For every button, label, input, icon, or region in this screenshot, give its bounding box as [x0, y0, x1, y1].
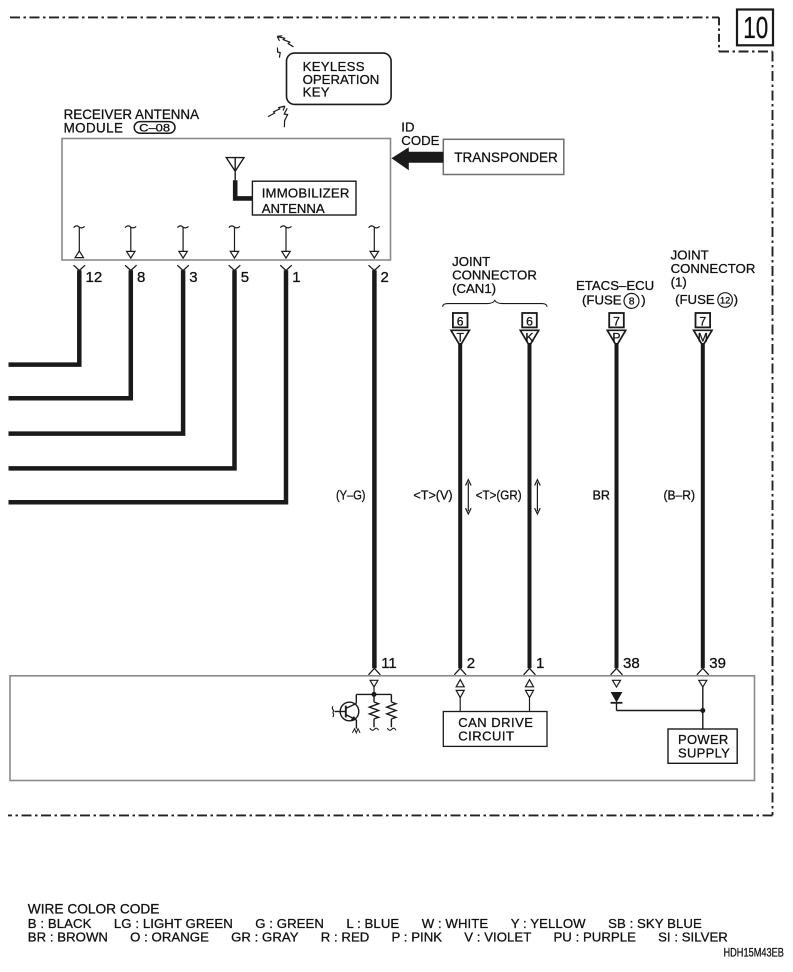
- joint connector 1 label: [671, 247, 756, 307]
- junction node diode/power: [700, 708, 705, 713]
- radio wave bolt top: [277, 36, 293, 47]
- emitter ground: [352, 729, 360, 733]
- pin 38 fork and number: [611, 655, 640, 675]
- svg-text:MODULE: MODULE: [64, 121, 124, 136]
- ECU box: [10, 676, 755, 781]
- svg-text:6: 6: [457, 315, 464, 329]
- ETACS wire: [615, 343, 619, 668]
- svg-text:K: K: [525, 331, 533, 345]
- pin 1 fork and number: [280, 265, 300, 286]
- page border dash-dot bottom: [8, 814, 773, 816]
- transistor Q1: [335, 694, 359, 728]
- svg-text:2: 2: [467, 655, 475, 672]
- wire from pin 2 to pin 11: [372, 270, 377, 668]
- ECU internal supply rail: [356, 693, 391, 695]
- ECU pin 1 terminal: [526, 680, 534, 712]
- wire pin39 to power supply: [702, 687, 704, 729]
- CAN-H wire: [528, 343, 532, 668]
- pin 2 fork and number: [369, 265, 389, 286]
- module pin 8 internal arrow: [125, 226, 136, 258]
- svg-text:<T>(V): <T>(V): [413, 488, 452, 502]
- wire from pin 5: [9, 270, 235, 468]
- diode D1: [611, 692, 623, 711]
- connector code C-08: [134, 122, 175, 135]
- svg-text:10: 10: [743, 10, 768, 45]
- svg-text:T: T: [456, 331, 464, 345]
- CAN drive circuit box: [443, 712, 547, 747]
- receiver antenna module label: [64, 107, 199, 136]
- keyless operation key box: [287, 53, 392, 104]
- svg-text:KEY: KEY: [303, 85, 330, 100]
- svg-text:): ): [734, 292, 738, 307]
- module pin 2 internal arrow: [369, 226, 380, 258]
- svg-text:CIRCUIT: CIRCUIT: [458, 729, 514, 744]
- svg-text:M: M: [698, 331, 708, 345]
- transponder id-code arrow: [392, 147, 444, 170]
- wire color code legend: [28, 902, 728, 945]
- junction node: [372, 692, 377, 697]
- svg-text:3: 3: [189, 269, 197, 286]
- svg-text:8: 8: [137, 269, 145, 286]
- svg-text:HDH15M43EB: HDH15M43EB: [724, 945, 784, 959]
- svg-text:12: 12: [720, 295, 730, 305]
- module pin 1 internal arrow: [280, 226, 291, 258]
- radio wave squiggle bottom: [284, 108, 287, 127]
- transistor emitter arrowhead: [351, 716, 357, 720]
- svg-text:(FUSE: (FUSE: [675, 292, 715, 307]
- resistor R2 break squiggle: [387, 728, 396, 730]
- JC1 wire: [701, 343, 705, 668]
- wire from pin 3: [9, 270, 184, 433]
- svg-text:BR: BR: [593, 488, 611, 502]
- module pin 3 internal arrow: [177, 226, 188, 258]
- pin 1 bottom fork and number: [524, 655, 545, 675]
- ECU pin 2 terminal: [456, 680, 464, 712]
- svg-text:(B–R): (B–R): [664, 488, 696, 502]
- svg-text:1: 1: [292, 269, 300, 286]
- ECU pin 11 terminal: [370, 680, 378, 692]
- svg-text:12: 12: [86, 269, 103, 286]
- svg-text:BR : BROWN O : ORANGE: BR : BROWN O : ORANGE GR : GRAY R : RED …: [28, 929, 728, 944]
- pin 5 fork and number: [229, 265, 249, 286]
- svg-text:39: 39: [709, 655, 726, 672]
- pin 8 fork and number: [125, 265, 145, 286]
- pin 39 fork and number: [697, 655, 726, 675]
- twisted pair arrow 1: [466, 480, 472, 514]
- module pin 12 internal arrow: [74, 226, 85, 258]
- svg-text:11: 11: [381, 655, 397, 672]
- module pin 5 internal arrow: [229, 226, 240, 258]
- wire from pin 1: [9, 270, 287, 502]
- joint connector CAN1 label: [452, 254, 537, 296]
- immobilizer antenna symbol: [226, 158, 244, 181]
- svg-text:2: 2: [381, 269, 389, 286]
- page border dash-dot right: [772, 52, 774, 816]
- svg-text:CODE: CODE: [401, 133, 439, 148]
- receiver antenna module box: [62, 139, 391, 261]
- svg-text:WIRE COLOR CODE: WIRE COLOR CODE: [28, 902, 160, 917]
- pin 3 fork and number: [177, 265, 197, 286]
- svg-text:5: 5: [241, 269, 249, 286]
- wire diode to node: [617, 710, 703, 712]
- pin 2 bottom fork and number: [454, 655, 475, 675]
- CAN-L wire: [458, 343, 462, 668]
- resistor R1: [369, 694, 378, 727]
- svg-text:38: 38: [623, 655, 640, 672]
- ETACS-ECU label: [576, 278, 654, 308]
- svg-text:7: 7: [613, 315, 620, 329]
- svg-text:ANTENNA: ANTENNA: [262, 201, 325, 216]
- svg-text:SUPPLY: SUPPLY: [678, 745, 730, 760]
- svg-text:7: 7: [699, 315, 706, 329]
- svg-text:): ): [641, 293, 645, 308]
- CAN1 connector K terminal: [520, 313, 538, 346]
- svg-text:(1): (1): [671, 275, 687, 290]
- page border dash-dot top: [10, 17, 773, 51]
- pin 11 fork and number: [369, 655, 397, 675]
- svg-text:(FUSE: (FUSE: [582, 293, 622, 308]
- radio wave bolt bottom: [268, 106, 285, 117]
- transponder box: [443, 139, 564, 174]
- svg-text:6: 6: [526, 315, 533, 329]
- resistor R1 break squiggle: [370, 728, 379, 730]
- svg-text:(Y–G): (Y–G): [336, 488, 366, 502]
- CAN1 connector T terminal: [451, 313, 469, 346]
- svg-text:ETACS–ECU: ETACS–ECU: [576, 278, 654, 293]
- page number box 10: [737, 10, 773, 46]
- svg-text:(CAN1): (CAN1): [452, 281, 496, 296]
- JC1 connector M terminal: [694, 313, 712, 346]
- radio wave squiggle top: [277, 48, 280, 58]
- svg-text:<T>(GR): <T>(GR): [476, 488, 522, 502]
- resistor R2: [387, 694, 396, 727]
- svg-text:TRANSPONDER: TRANSPONDER: [454, 150, 558, 165]
- svg-text:P: P: [612, 331, 620, 345]
- immobilizer antenna thick wire: [235, 180, 252, 198]
- svg-text:C–08: C–08: [139, 122, 170, 134]
- ID CODE label: [401, 120, 439, 148]
- wire from pin 12: [9, 270, 80, 364]
- svg-text:1: 1: [536, 655, 544, 672]
- twisted pair arrow 2: [535, 480, 541, 514]
- ECU pin 39 terminal: [699, 680, 707, 687]
- svg-text:8: 8: [629, 297, 635, 308]
- power supply box: [668, 729, 737, 763]
- ECU pin 38 terminal: [613, 680, 621, 687]
- brace over CAN1 connectors: [443, 300, 547, 306]
- base lead break squiggle: [332, 706, 333, 717]
- immobilizer antenna label box: [252, 181, 356, 216]
- pin 12 fork and number: [74, 265, 103, 286]
- ETACS connector P terminal: [607, 313, 625, 346]
- wire from pin 8: [9, 270, 131, 398]
- svg-text:IMMOBILIZER: IMMOBILIZER: [262, 185, 350, 200]
